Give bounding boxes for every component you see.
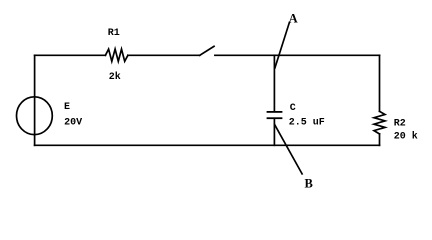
svg-text:20V: 20V	[64, 117, 82, 128]
wire right vertical lower	[379, 134, 381, 145]
svg-text:R2: R2	[394, 118, 406, 129]
svg-text:2k: 2k	[109, 71, 121, 83]
switch S1 blade	[200, 46, 214, 55]
capacitor C bottom plate	[268, 117, 282, 119]
resistor R2	[374, 111, 385, 134]
wire top right segment	[215, 54, 380, 56]
wire left vertical	[34, 55, 36, 145]
svg-text:B: B	[305, 177, 313, 191]
voltage source E circle	[17, 97, 53, 135]
capacitor C top plate	[268, 111, 282, 113]
svg-text:2.5 uF: 2.5 uF	[289, 118, 325, 129]
node B pointer line	[275, 125, 302, 174]
wire right vertical upper	[379, 55, 381, 111]
node A pointer line	[275, 22, 290, 68]
resistor R1	[105, 49, 128, 61]
wire capacitor upper lead	[273, 55, 275, 111]
wire capacitor lower lead	[273, 118, 275, 145]
svg-text:A: A	[289, 12, 298, 26]
svg-text:E: E	[64, 102, 70, 113]
svg-text:R1: R1	[108, 28, 120, 39]
svg-text:C: C	[290, 103, 296, 114]
wire top-left segment	[35, 54, 106, 56]
wire bottom	[35, 144, 380, 146]
wire top middle segment	[128, 54, 200, 56]
svg-text:20 k: 20 k	[394, 130, 418, 142]
